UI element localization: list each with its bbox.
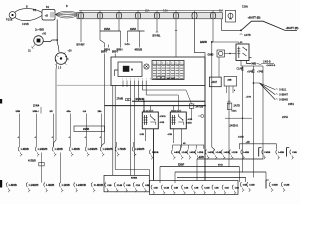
connector outside 2 [247, 182, 248, 187]
svg-text:I-4DB: I-4DB [243, 151, 249, 154]
fuse F4 [137, 11, 139, 20]
svg-text:2: 2 [158, 62, 159, 64]
svg-text:C1B: C1B [136, 185, 141, 187]
wire B to relay K2 [143, 101, 145, 112]
fan connector 1 [276, 88, 278, 91]
svg-text:24/7DB: 24/7DB [196, 107, 204, 109]
wire module pin f [141, 81, 143, 91]
svg-text:I-14B: I-14B [182, 151, 188, 154]
ground bus box right [149, 181, 238, 195]
wire y95 to relay K3 [146, 95, 178, 112]
connector row A left 2 I-14D/B [35, 147, 36, 152]
wire fuse F2 drop [99, 20, 101, 32]
svg-text:86 30 85 87: 86 30 85 87 [143, 110, 153, 112]
fuse F5 [156, 11, 158, 20]
svg-text:I-24D/B: I-24D/B [88, 147, 98, 151]
svg-text:B55-I: B55-I [101, 51, 107, 53]
connector row A right 12 I-4DB [276, 150, 277, 155]
svg-text:2: 2 [126, 79, 127, 81]
wire relay K1 bottom left down [240, 61, 242, 67]
dashboard boundary line [57, 84, 111, 86]
wire gnd box to relay [225, 53, 237, 55]
svg-text:C14B: C14B [117, 184, 123, 187]
fuse F2 [99, 11, 101, 20]
connector row A right 11 C4DB [262, 150, 263, 155]
connector row A right 8 I-4DB [221, 150, 222, 155]
connector row A left 8 I-14D/B [132, 147, 133, 152]
svg-text:24/1 24/2: 24/1 24/2 [167, 78, 177, 80]
svg-text:I-4D/B: I-4D/B [21, 147, 29, 151]
wire module pin d long [133, 81, 135, 176]
cluster table [152, 61, 184, 80]
resistor R1 [189, 104, 194, 108]
svg-text:2/45B: 2/45B [238, 137, 244, 139]
bus L2 [160, 166, 239, 168]
battery B+ terminal [9, 12, 16, 19]
wire right v2 [252, 66, 254, 178]
module box outline [111, 57, 205, 86]
svg-text:+4B: +4B [246, 142, 251, 144]
connector row A right 10 I-4DB [241, 150, 242, 155]
connector row B box2 2 C14B [161, 185, 162, 190]
svg-text:I-1D/B: I-1D/B [62, 183, 70, 187]
svg-text:4: 4 [167, 62, 168, 64]
svg-text:I-14D/B: I-14D/B [103, 147, 113, 151]
svg-text:4X5B/B: 4X5B/B [28, 160, 36, 162]
wire F4 jog bar [128, 30, 145, 32]
wire feed to ignition [57, 42, 59, 52]
mini bus row A group [173, 145, 204, 149]
connector row A left 4 I-4D/B [69, 147, 70, 152]
svg-text:C4B: C4B [126, 184, 131, 187]
svg-text:EXB: EXB [199, 157, 204, 159]
connector row B box1 5 C4B [143, 182, 144, 187]
connector row B box1 3 C4B [124, 182, 125, 187]
svg-text:+50: +50 [42, 33, 47, 36]
connector row A right 6 I-4DB [205, 150, 206, 155]
connector row B left 1 I-4D/B [6, 182, 7, 187]
fanout wires [260, 83, 276, 90]
fuse F7 [194, 11, 196, 20]
svg-text:5: 5 [171, 62, 172, 64]
wire slant to resistor [186, 90, 192, 104]
wire F2 left drop [100, 31, 105, 48]
svg-text:30A: 30A [219, 10, 224, 13]
connector row B box2 9 C4B [232, 185, 233, 190]
svg-text:3: 3 [130, 79, 131, 81]
connector row B box1 4 C1B [133, 182, 134, 187]
relay K2 [142, 112, 158, 129]
wire rowA-rowB link 60 [60, 153, 62, 183]
svg-text:I-14D/B: I-14D/B [135, 147, 145, 151]
svg-text:24/5B: 24/5B [83, 128, 90, 131]
bus wire B [132, 100, 205, 102]
bus L1 EXB [197, 158, 263, 160]
wire K3 bottom a [173, 129, 175, 143]
junction right v2 [253, 82, 255, 84]
connector row A left 3 I-1D/B [52, 147, 53, 152]
svg-text:A4/7B: A4/7B [244, 34, 251, 37]
wire strip end down [220, 19, 222, 30]
fuse F6 [175, 11, 177, 20]
connector break v0 [228, 101, 230, 104]
wire y90 to right [142, 89, 186, 91]
svg-text:2/45A: 2/45A [282, 116, 289, 119]
wire F4 left drop [127, 31, 129, 42]
svg-text:BY-R/Y: BY-R/Y [77, 44, 86, 47]
wire hill to +BATT [241, 21, 297, 30]
svg-text:I-4DB: I-4DB [208, 151, 214, 154]
ignition switch [55, 53, 67, 65]
wire L4 right drop [245, 178, 247, 183]
warning lamp [144, 64, 149, 69]
wire resistor down [191, 108, 193, 120]
svg-text:C14B: C14B [204, 186, 210, 189]
svg-text:I-14D/B: I-14D/B [38, 147, 48, 151]
wire A to relay K2 b [149, 106, 151, 112]
svg-text:2x 4B/B: 2x 4B/B [35, 28, 44, 32]
svg-text:3: 3 [162, 62, 163, 64]
svg-text:3/5B-I: 3/5B-I [33, 111, 39, 113]
svg-text:I-1D/B: I-1D/B [55, 147, 63, 151]
wire module drops join [113, 170, 150, 176]
svg-text:8: 8 [150, 79, 151, 81]
connector row B box2 3 C4B [171, 185, 172, 190]
svg-text:B/B55: B/B55 [200, 41, 208, 44]
svg-text:+BAT: +BAT [211, 81, 218, 84]
svg-text:EXBB: EXBB [131, 178, 137, 180]
svg-text:C-4D/B: C-4D/B [94, 183, 103, 187]
wire fuse F3 drop [118, 20, 120, 32]
svg-text:4/3DB: 4/3DB [160, 116, 167, 118]
junction A [240, 30, 242, 32]
svg-text:15A: 15A [145, 10, 150, 13]
wire rowA-rowB link 41 [41, 153, 43, 183]
svg-text:7,5A: 7,5A [242, 5, 248, 9]
svg-text:C4B: C4B [235, 186, 240, 189]
wire A to relay K3 [172, 106, 174, 112]
wire module left drop 2 [114, 86, 116, 170]
svg-text:B55-I: B55-I [112, 51, 118, 53]
tiny box pair 17AB [125, 99, 127, 101]
wire right v0 [228, 86, 230, 167]
terminal ring [201, 115, 204, 118]
svg-text:7: 7 [146, 79, 147, 81]
svg-text:C1B: C1B [225, 187, 230, 189]
svg-text:C4DB: C4DB [264, 151, 270, 154]
wire fuse F7 drop [195, 20, 206, 58]
wire L1 left drop [196, 159, 198, 181]
connector C4/5B [259, 63, 261, 66]
wire feed unit 133 [133, 142, 135, 147]
wire fuse F6 drop [175, 20, 177, 58]
fuse F3 [118, 11, 120, 20]
svg-text:+BATT (B): +BATT (B) [286, 26, 299, 30]
wire bundle feed down [56, 20, 58, 43]
svg-text:24B: 24B [228, 78, 232, 81]
wire mid v104 [102, 54, 105, 147]
wire K2 bottom heavy [153, 129, 155, 181]
table sub cells [157, 77, 160, 80]
connector row A left 6 I-14D/B [100, 147, 101, 152]
svg-text:2A/7B: 2A/7B [234, 105, 241, 108]
wire F2 jog bar [100, 30, 121, 32]
svg-text:C4B: C4B [215, 186, 220, 189]
svg-text:I-24D/B: I-24D/B [76, 183, 86, 187]
svg-text:I-4D/B: I-4D/B [72, 147, 80, 151]
wire feed unit 116 [116, 142, 118, 147]
svg-text:C4B: C4B [174, 186, 179, 189]
svg-text:4+B+: 4+B+ [125, 44, 131, 46]
component box P [209, 77, 221, 87]
connector row A right 2 I-4DB [172, 150, 173, 155]
mini bus +4B [239, 144, 276, 150]
svg-text:C4B: C4B [292, 151, 297, 154]
wire battery to junction box lower [15, 16, 42, 21]
svg-text:1: 1 [153, 62, 154, 64]
svg-text:A/3B: A/3B [188, 118, 193, 121]
bus wire A [105, 105, 206, 107]
connector row B left 3 I-4D/B [44, 182, 45, 187]
wire right h 66 [241, 65, 263, 67]
svg-text:15/5A: 15/5A [104, 28, 111, 31]
connector row B box1 1 C4B [105, 182, 106, 187]
starter motor M [34, 36, 44, 46]
svg-text:O-BL/1: O-BL/1 [279, 90, 287, 92]
svg-text:C1B: C1B [184, 187, 189, 189]
fan connector 2 [276, 93, 278, 96]
connector row B box2 5 C4B [192, 185, 193, 190]
svg-text:+30: +30 [68, 50, 73, 53]
connector row A right 13 C4B [290, 150, 291, 155]
wire L3 right drop [265, 172, 267, 181]
junction F8 [211, 41, 213, 43]
svg-text:EXBF: EXBF [178, 165, 185, 167]
svg-text:86 30 85 87: 86 30 85 87 [171, 110, 181, 112]
svg-text:3/5B: 3/5B [16, 111, 21, 113]
ground box EXBB [104, 175, 149, 191]
connector row B left 5 I-24D/B [74, 182, 75, 187]
connector row B box2 6 C14B [202, 185, 203, 190]
svg-text:M: M [131, 68, 133, 72]
wire L3 left drop [174, 172, 176, 183]
svg-text:B: B [66, 4, 68, 8]
svg-text:I-1DB: I-1DB [198, 152, 204, 154]
svg-text:I-4DB: I-4DB [278, 151, 284, 154]
connector row B box2 7 C4B [212, 185, 213, 190]
svg-text:C4B: C4B [194, 186, 199, 189]
connector row A right 7 I-14B [213, 150, 214, 155]
wire module pin a [122, 81, 124, 88]
connector row A left 7 I-7D/B [115, 147, 116, 152]
wire right v1 [242, 66, 244, 173]
svg-text:+7/4B: +7/4B [257, 72, 264, 74]
svg-text:+BATT (B): +BATT (B) [248, 15, 261, 19]
connector outside 1 [240, 182, 241, 187]
svg-text:I-1DB: I-1DB [232, 152, 238, 154]
fuse F8 [212, 11, 214, 20]
svg-text:E/XB: E/XB [218, 165, 223, 167]
wire L2 left drop [159, 167, 161, 184]
connector row B box2 1 C4B [151, 185, 152, 190]
connector row A right 1 C4D/B [149, 150, 150, 155]
svg-text:P2Sa: P2Sa [6, 18, 13, 22]
relay K3 [170, 112, 186, 129]
wire F8 junction down [212, 42, 215, 151]
connector break v1 [241, 67, 243, 70]
lighter element [228, 13, 233, 18]
wire 205 down [204, 86, 206, 181]
svg-text:C4/5-B: C4/5-B [263, 61, 271, 64]
svg-text:I-4D/B: I-4D/B [46, 183, 54, 187]
svg-text:I-14D/B: I-14D/B [29, 183, 39, 187]
svg-text:4/35B: 4/35B [186, 123, 192, 125]
wire F2 right drop [120, 31, 122, 48]
fuse F1 [80, 11, 82, 20]
connector row A right 3 I-14B [179, 150, 180, 155]
wire module pin b [126, 81, 128, 88]
scan artifact left edge 2 [0, 180, 2, 188]
wire module pin g [145, 81, 147, 96]
connector outside 4 [281, 182, 282, 187]
wire K3 bottom b [180, 129, 183, 151]
svg-text:7: 7 [180, 62, 181, 64]
wire fuse F8 drop [212, 20, 214, 43]
svg-text:C14B: C14B [164, 186, 170, 189]
junction bus A 205 [204, 105, 206, 107]
GND sensor box [217, 50, 225, 57]
module pin numbers [122, 79, 151, 81]
svg-text:BY-R/L: BY-R/L [153, 35, 162, 38]
svg-text:I-7D/B: I-7D/B [118, 147, 126, 151]
wire F4 right drop [139, 31, 141, 48]
wire relay K1 bottom right out [247, 61, 252, 64]
svg-text:4: 4 [134, 79, 135, 81]
inline fuse box 24/5B [74, 126, 105, 132]
svg-text:GND: GND [208, 53, 214, 57]
connector row A right 4 I-4DB [187, 150, 188, 155]
connector row A left 5 I-24D/B [85, 147, 86, 152]
wire fuse F1 drop [80, 20, 82, 43]
wire right h 118 [225, 117, 252, 119]
svg-text:1: 1 [122, 79, 123, 81]
component box top right [226, 10, 236, 22]
svg-text:17A/4: 17A/4 [33, 104, 40, 107]
svg-text:+5VB: +5VB [246, 97, 252, 99]
wire fuse F5 drop [156, 20, 158, 33]
svg-text:I4B/1: I4B/1 [232, 111, 238, 113]
svg-text:C4B: C4B [154, 186, 159, 189]
svg-text:4/3B: 4/3B [168, 134, 173, 136]
svg-text:I-14B: I-14B [216, 151, 222, 154]
svg-text:B: B [26, 5, 28, 9]
connector A4/7B [240, 33, 243, 36]
wire 205 upper [204, 57, 206, 86]
svg-text:O-BB4/5: O-BB4/5 [279, 100, 289, 102]
svg-text:I-4DB: I-4DB [224, 151, 230, 154]
wire relay K1 out right [249, 57, 252, 59]
svg-text:I-4D/B: I-4D/B [9, 183, 17, 187]
connector row B left 6 C-4D/B [91, 182, 92, 187]
svg-text:-2A: -2A [83, 110, 87, 113]
connector row B box2 4 C1B [182, 185, 183, 190]
wire L2 right drop [238, 167, 240, 183]
fusebox strip [77, 13, 223, 19]
connector row A right 9 I-1DB [229, 150, 230, 155]
inner sub box [118, 62, 142, 77]
wire starter to feed [43, 40, 57, 42]
svg-text:17A/B: 17A/B [117, 98, 124, 101]
component box Q [224, 76, 237, 86]
wire K2 bottom a [145, 129, 147, 141]
wire module pin c long [130, 81, 132, 176]
bracket row A 258 [258, 148, 260, 157]
svg-text:4/3C/B: 4/3C/B [135, 49, 143, 52]
svg-text:C4DB: C4DB [272, 184, 278, 187]
cable bundle lens [56, 11, 80, 14]
svg-text:C4D/B: C4D/B [152, 151, 159, 154]
wire gnd drop [218, 57, 220, 77]
bracket outside [265, 180, 267, 189]
fan connector 3 [276, 98, 278, 101]
relay K1 [236, 44, 249, 61]
svg-text:6: 6 [142, 79, 143, 81]
svg-text:C14B: C14B [284, 184, 290, 187]
svg-text:+24A/5-B: +24A/5-B [266, 64, 276, 67]
wire mid v115 [114, 54, 116, 58]
svg-text:2/4B: 2/4B [140, 134, 145, 136]
component box A7B [227, 103, 232, 110]
svg-text:24B/1: 24B/1 [288, 104, 295, 106]
connector outside 3 [269, 182, 270, 187]
wire module left drop 1 [112, 86, 114, 170]
svg-text:O-BB4/7: O-BB4/7 [279, 95, 289, 97]
svg-text:5: 5 [138, 79, 139, 81]
svg-text:C2SB: C2SB [22, 22, 29, 26]
wire inner box left [115, 70, 119, 76]
wire to hill junction [221, 29, 241, 31]
connector row B left 4 I-1D/B [59, 182, 60, 187]
motor element [123, 66, 130, 72]
connector row B box2 8 C1B [222, 185, 223, 190]
svg-text:6: 6 [176, 62, 177, 64]
svg-text:A/3B: A/3B [160, 121, 165, 124]
bus L4 [177, 177, 246, 179]
connector break v2 [252, 69, 254, 72]
svg-text:+B: +B [45, 14, 49, 18]
connector row A right 5 I-1DB [195, 150, 196, 155]
connector row B left 2 I-14D/B [26, 182, 27, 187]
svg-text:C1/4B: C1/4B [237, 69, 244, 71]
wire ignition down [54, 65, 57, 147]
wire junction to relay K1 [212, 41, 239, 43]
svg-text:7,5A: 7,5A [163, 10, 168, 13]
bracket row A 286 [286, 148, 288, 157]
wire module pin e [137, 81, 139, 102]
connector row A left 1 I-4D/B [18, 147, 19, 152]
svg-text:19/5A: 19/5A [130, 28, 137, 31]
junction box B1 [42, 10, 55, 21]
wire battery to junction box upper [15, 9, 43, 13]
svg-text:I4/B: I4/B [252, 63, 257, 66]
bus L3 [175, 171, 266, 173]
scan artifact left edge [0, 99, 2, 104]
bus line top [79, 10, 222, 12]
svg-text:C14B: C14B [249, 184, 255, 187]
svg-text:24/5B-B: 24/5B-B [230, 126, 239, 128]
connector row B box1 2 C14B [114, 182, 115, 187]
wire right v3 [262, 66, 264, 159]
